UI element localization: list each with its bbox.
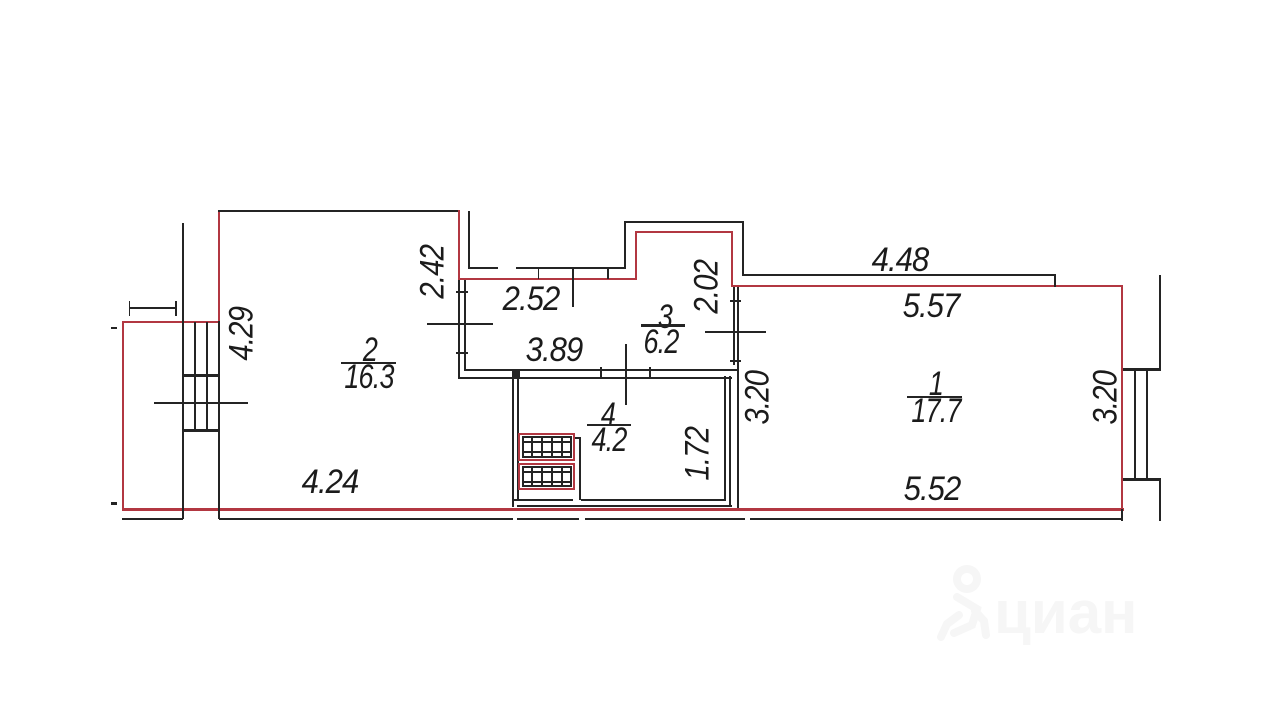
watermark cian logo	[937, 555, 1167, 655]
corridor right wall line a	[724, 376, 726, 501]
left window inner mullion 1	[194, 322, 196, 431]
dimension text 3.20 vertical corridor	[738, 371, 777, 425]
label room4 fraction line	[587, 424, 632, 426]
bracket tick right	[175, 301, 177, 316]
label room4 area	[591, 421, 626, 460]
red wall room2 right top vertical	[458, 210, 460, 280]
dimension 4.48 end tick	[1054, 274, 1056, 287]
bathroom floor line seg1	[512, 499, 573, 501]
dimension text 3.20 vertical right	[1087, 370, 1126, 424]
black exterior outline above room3: left vertical	[468, 211, 470, 268]
wall junction blob	[512, 369, 520, 378]
bottom black line seg bath-corridor	[585, 518, 745, 520]
right window mullion 1	[1134, 370, 1136, 479]
dimension text 4.48	[872, 241, 929, 280]
right window bottom cap	[1123, 478, 1161, 481]
wall room2/room3 line left	[458, 280, 460, 377]
red wall room2 left vertical (corner to balcony)	[218, 210, 220, 322]
tiny level dash lower	[111, 502, 117, 505]
bottom black line seg room2	[219, 518, 513, 520]
cross line room3/room4 vertical	[625, 344, 627, 406]
label room3 number	[658, 298, 672, 337]
right dimension line upper	[1159, 275, 1161, 370]
washer box 1 red	[518, 433, 575, 462]
balcony top wall (red)	[122, 321, 220, 323]
room4 left wall line a	[512, 376, 514, 507]
red wall room1 top horizontal	[731, 285, 1123, 287]
left window right vertical (black below red)	[218, 321, 220, 519]
dimension bracket 2.02 horizontal	[624, 221, 744, 223]
washer box 2 red	[518, 463, 575, 491]
balcony left wall (red)	[122, 321, 124, 510]
bathroom floor line seg2	[581, 499, 726, 501]
red wall room3 top horizontal	[458, 278, 637, 280]
dimension 4.48 line	[742, 274, 1055, 276]
wall tick c	[600, 367, 602, 379]
washer niche right border top stub	[575, 437, 581, 439]
label room1 area	[911, 392, 960, 431]
right window top cap	[1123, 368, 1161, 371]
left window cap lower	[182, 429, 220, 432]
room3 bottom wall upper line	[464, 369, 738, 371]
dimension text 5.57	[903, 287, 960, 326]
tick under top outline b (long)	[572, 267, 574, 307]
bottom black line seg washer	[517, 518, 579, 520]
cross line room3/room1	[705, 331, 766, 333]
tick under top outline c	[607, 267, 609, 279]
room4 left wall line b	[517, 376, 519, 501]
room3/room1 wall line b	[737, 287, 739, 508]
black exterior outline horizontal seg1	[468, 267, 498, 269]
wall room2/room3 line right	[464, 280, 466, 372]
dimension text 4.29 vertical	[223, 306, 262, 360]
room3 bottom wall lower line	[458, 377, 732, 379]
washer box 1 grid	[522, 436, 572, 458]
bottom black line seg balcony	[122, 518, 184, 520]
dimension text 4.24	[302, 463, 359, 502]
dimension text 2.02 vertical	[688, 260, 727, 314]
room3/room1 wall line a	[733, 287, 735, 365]
label room3 area	[643, 323, 678, 362]
wall tick e	[730, 300, 742, 302]
label room2 number	[362, 331, 376, 370]
wall tick a	[456, 291, 468, 293]
label room2 fraction line	[341, 362, 396, 364]
tick under top outline a	[538, 267, 540, 279]
red wall notch left vertical	[635, 231, 637, 279]
bottom-right corner black stub	[1121, 509, 1123, 521]
tiny level dash upper	[111, 327, 117, 330]
bracket tick left	[129, 301, 131, 316]
left window cap upper	[182, 374, 220, 377]
label room2 area	[344, 358, 393, 397]
washer box 2 grid	[522, 466, 572, 487]
left window outer vertical (wall)	[182, 223, 184, 520]
label room3 fraction line	[641, 324, 685, 326]
wall tick f	[730, 360, 742, 362]
bottom black line seg room1	[750, 518, 1123, 520]
balcony top dimension bracket	[129, 307, 176, 309]
corridor right wall line b	[729, 376, 731, 507]
dimension 2.02 right vertical	[742, 221, 744, 276]
washer niche right border vertical	[579, 438, 581, 500]
left window centerline	[154, 402, 248, 404]
black exterior outline horizontal seg2	[516, 267, 626, 269]
red wall room1 right vertical	[1121, 285, 1123, 509]
left window inner mullion 2	[206, 322, 208, 431]
lower interior line	[517, 505, 732, 507]
label room1 number	[929, 365, 943, 404]
room2 top wall (black)	[218, 210, 460, 212]
dimension text 5.52	[903, 470, 960, 509]
dimension text 2.42 vertical	[414, 245, 453, 299]
dimension text 3.89	[526, 331, 583, 370]
wall tick d	[649, 367, 651, 379]
dimension text 2.52	[503, 280, 560, 319]
red wall notch right vertical	[731, 231, 733, 286]
right dimension line lower	[1159, 480, 1161, 521]
red bottom wall full width	[122, 508, 1124, 512]
black exterior notch vertical	[624, 221, 626, 268]
dimension text 1.72 vertical	[679, 427, 718, 481]
cross line room2/room3	[427, 323, 493, 325]
wall tick b	[456, 352, 468, 354]
right window mullion 2	[1146, 370, 1148, 479]
label room1 fraction line	[907, 396, 963, 398]
label room4 number	[600, 396, 614, 435]
red wall notch top horizontal	[635, 231, 733, 233]
svg-text:циан: циан	[994, 579, 1137, 646]
